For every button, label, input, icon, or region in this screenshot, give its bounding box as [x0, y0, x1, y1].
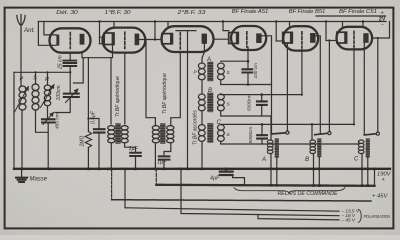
wire: relay C coil to bus and command bus: [361, 153, 363, 185]
wire: rail riser at x155: [154, 22, 156, 40]
wire: 1uF to bus: [135, 157, 137, 168]
transformer A primary winding: [198, 63, 205, 80]
node: misc junction dots: [34, 71, 36, 73]
wire: V3 screen lead to relay bus: [187, 52, 189, 168]
inductor R (reaction coil): [44, 85, 50, 106]
wire: V1 grid lead: [69, 53, 71, 60]
svg-text:1µF: 1µF: [129, 146, 139, 152]
node: rail tick T5-T6 filament link: [325, 22, 327, 41]
wire: relay A coil to bus and command bus: [270, 153, 272, 185]
wire: V6 filament uplink to rail: [342, 22, 344, 27]
relay C coil: [358, 140, 364, 154]
wire: coil R bottom to tuning capacitor: [47, 106, 49, 119]
transformer B secondary winding: [218, 94, 225, 111]
transformer B primary winding: [198, 94, 205, 111]
capacitor 5000cm (across C secondary): [261, 124, 263, 144]
tube V3 filament bar: [170, 34, 173, 43]
antenna symbol: [17, 15, 25, 39]
capacitor C 1uF (second): [159, 156, 170, 159]
adjustable arrow through coil P: [15, 87, 29, 113]
wire: battery riser from rail to C51 filament return: [372, 22, 390, 39]
relay C core bar: [366, 138, 370, 157]
svg-text:Tr.BF apériodique: Tr.BF apériodique: [162, 73, 168, 114]
relay A contact terminal: [286, 131, 289, 134]
wire: tuning cap to ground bus: [47, 123, 49, 168]
relay B contact terminal: [328, 132, 331, 135]
svg-text:Dét. 30: Dét. 30: [56, 10, 78, 16]
wire: V1 filament bottom lead from rail: [38, 22, 56, 46]
capacitor C 1uF (first): [130, 153, 141, 156]
wire: V2 plate drop to TR2 primary: [146, 40, 155, 126]
transformer TR1 (Tr.BF aperiodique) left winding: [108, 126, 115, 143]
wire: riser to +45V line: [111, 169, 113, 200]
wire: V2 plate out to V3 input: [139, 39, 161, 41]
tube V1 filament bar: [56, 35, 59, 46]
tube V6 filament bar: [344, 33, 347, 43]
wire: reaction hook: [74, 58, 84, 83]
capacitor 0.5uF: [94, 129, 105, 132]
transformer B core: [207, 93, 213, 113]
wire: V2 grid down to transformer1 secondary: [124, 53, 126, 124]
svg-text:RELAIS DE COMMANDE: RELAIS DE COMMANDE: [278, 191, 339, 197]
wire: C secondary bottom line to relay C coil: [221, 141, 359, 144]
wire: V3 plate out to V4 input: [214, 38, 229, 40]
svg-text:R: R: [45, 77, 49, 83]
svg-text:5000cm: 5000cm: [247, 94, 252, 111]
wire: V2 filament uplink to rail: [113, 22, 115, 28]
wire: V2 filament riser from rail: [99, 22, 101, 44]
wire: B-C primary link: [201, 111, 203, 125]
svg-text:0,5µF: 0,5µF: [91, 110, 97, 124]
tube V6 grid (dashed): [353, 31, 355, 46]
tube V3 filament box: [162, 34, 173, 44]
relay C contact terminal: [376, 132, 379, 135]
svg-text:C: C: [354, 157, 359, 163]
tube V3 anode plate: [202, 34, 207, 44]
tube V3 2.BF33 envelope: [162, 26, 214, 52]
wire: relay C contact feed from battery link: [377, 38, 379, 132]
tube V4 BF Finale A51 envelope: [231, 26, 266, 50]
wire: relay command bus (heavy dashed): [156, 185, 374, 186]
svg-text:100 cm: 100 cm: [253, 63, 258, 78]
wire: polarisation tap -18V: [181, 169, 339, 216]
svg-text:100cm: 100cm: [56, 85, 62, 100]
tube V4 anode plate: [256, 33, 261, 43]
relay A coil: [267, 140, 273, 154]
wire: V5 plate to relay B armature: [316, 36, 321, 134]
wire: V4 plate to relay A armature: [262, 36, 272, 134]
wire: TR1 right winding bottom to 1uF cap: [125, 143, 136, 152]
wire: C sec top to relay B coil: [311, 124, 313, 140]
capacitor 100cm (across A secondary): [247, 61, 249, 84]
transformer TR1 core: [115, 123, 120, 143]
transformer C primary winding: [198, 125, 205, 142]
tube V6 filament box: [337, 32, 347, 43]
svg-text:25 cm: 25 cm: [58, 55, 64, 70]
tube V3 screen grid rod and top strap: [176, 31, 196, 52]
transformer TR2 (Tr.BF aperiodique) left winding: [152, 126, 159, 143]
wire: +45V distribution line: [112, 200, 371, 201]
wire: coil S bottom to junction: [36, 110, 49, 132]
tube V4 filament bar: [236, 33, 239, 43]
wire: coil R top to grid line: [47, 72, 49, 85]
svg-text:POLARISATION: POLARISATION: [364, 214, 391, 219]
transformer C secondary winding: [218, 125, 225, 142]
variable capacitor 100cm (grid): [64, 94, 79, 97]
wire: antenna lead down to coil P: [21, 38, 23, 86]
svg-text:B: B: [208, 88, 212, 94]
tube V2 filament bar: [112, 34, 115, 44]
svg-text:C: C: [217, 120, 222, 126]
tube V5 filament bar: [290, 33, 293, 42]
brace: relais group: [234, 188, 345, 193]
relay B coil: [310, 140, 316, 154]
transformer C core: [207, 123, 213, 143]
wire: TR2 right winding bottom to 1uF cap2: [164, 143, 171, 156]
svg-text:−: −: [381, 22, 384, 28]
svg-text:Masse: Masse: [30, 176, 48, 183]
wire: 0.5uF branch from plate feed: [88, 119, 99, 129]
relay B core bar: [317, 138, 321, 157]
relay A core bar: [275, 138, 279, 157]
wire: V3 filament uplink to rail: [167, 22, 169, 27]
svg-text:BF Finale B51: BF Finale B51: [289, 9, 326, 15]
svg-text:BF Finale C51: BF Finale C51: [339, 9, 377, 15]
transformer A core: [207, 62, 213, 82]
wire: A secondary top to V4 grid: [221, 47, 248, 61]
svg-text:2°B.F. 33: 2°B.F. 33: [176, 10, 206, 16]
wire: 4uF bottom to relay bus riser: [233, 175, 245, 184]
wire: cathode return link at y58: [88, 45, 112, 58]
bracket: polarisation group: [358, 209, 361, 222]
wire: V5 filament uplink to rail: [289, 22, 291, 27]
tube V1 anode plate: [80, 34, 85, 45]
svg-text:BF Finale A51: BF Finale A51: [232, 9, 269, 15]
wire: V5 to V6 filament link: [326, 40, 337, 42]
tube V2 1.BF30 envelope: [103, 28, 146, 53]
wire: A secondary bottom line: [221, 80, 272, 85]
tube V1 grid (dashed): [69, 33, 71, 49]
wire: polarisation tap -13.5V: [125, 169, 339, 211]
relay A armature lever: [272, 133, 286, 134]
transformer TR2 core: [160, 123, 165, 143]
wire: +2V filament rail (plus side, right): [316, 15, 386, 17]
wire: main HT/ground bus 190V: [14, 168, 390, 170]
wire: +2V filament rail (top, minus side): [38, 21, 386, 23]
wire: V3 plate to tuned transformer chain: [202, 44, 204, 63]
tube V2 anode plate: [135, 34, 140, 46]
wire: relay B core to bus and command bus: [318, 157, 320, 185]
tube V2 grid (dashed): [124, 32, 126, 48]
wire: 0.5uF to ground bus: [98, 133, 100, 168]
node: C sec top junction: [261, 123, 264, 126]
wire: 1uF2 to bus: [163, 160, 165, 168]
wire: relay bus right riser to HT bus: [374, 169, 376, 186]
wire: relay B coil to bus and command bus: [313, 153, 315, 185]
node: A sec bottom junction: [247, 83, 250, 86]
wire: riser to relay command bus: [155, 169, 157, 185]
node: junction at battery link: [377, 37, 379, 39]
wire: coil P bottom to ground bus: [21, 110, 23, 168]
wire: V4 filament riser from rail: [223, 22, 229, 31]
tube V6 BF Finale C51 envelope: [337, 27, 373, 50]
tube V5 filament box: [283, 32, 293, 43]
tube V3 grid (dashed): [179, 33, 181, 50]
node: rail junction dots: [98, 20, 100, 22]
wire: V6 plate to relay C armature: [363, 43, 365, 134]
wire: C secondary top to V6 grid: [221, 46, 354, 124]
node: B sec top junction: [260, 93, 263, 96]
node: detector grid junction: [69, 71, 71, 73]
ground symbol (Masse): [16, 178, 27, 182]
tube V5 grid (dashed): [301, 32, 303, 47]
svg-text:5000cm: 5000cm: [248, 127, 253, 144]
svg-text:1µF: 1µF: [157, 159, 167, 165]
svg-text:S: S: [33, 76, 37, 82]
wire: relay B contact feed from V6 filament: [328, 41, 330, 132]
relay C armature lever: [364, 134, 376, 135]
tube V5 BF Finale B51 envelope: [283, 26, 318, 50]
wire: plate feed vertical to 2Mohm: [87, 58, 89, 132]
capacitor 5000cm (across B secondary): [261, 95, 263, 116]
wire: relay A core to bus and command bus: [276, 158, 278, 186]
wire: grid condenser to junction: [69, 67, 71, 93]
node: bus junction blobs: [21, 168, 24, 171]
svg-text:450 cm: 450 cm: [55, 113, 61, 129]
wire: V1 filament top lead from rail: [44, 22, 57, 35]
node: junction at V6 lead: [328, 39, 330, 41]
transformer A secondary winding: [218, 63, 225, 80]
svg-text:A: A: [261, 157, 266, 163]
relay B armature lever: [315, 133, 328, 134]
wire: TR2 left winding bottom to bus: [154, 143, 156, 168]
capacitor 4uF (HT decoupling): [225, 169, 227, 171]
transformer TR2 right winding: [167, 126, 174, 143]
wire: polarisation tap -45V: [258, 214, 339, 220]
node: junction at relay B feed: [311, 123, 314, 126]
wire: 100cm cap down to lower node: [55, 98, 70, 113]
tube V4 filament box: [229, 33, 239, 44]
svg-text:2MΩ: 2MΩ: [80, 136, 86, 148]
node: command bus junction blobs: [270, 184, 273, 187]
tube V1 Det.30 envelope: [50, 28, 91, 52]
tube V6 anode plate: [363, 33, 368, 43]
wire: C primary bottom to bus: [201, 141, 203, 168]
node: A sec top junction: [247, 60, 250, 63]
svg-text:4µF: 4µF: [210, 176, 220, 182]
wire: B secondary top to V5 grid: [221, 47, 302, 95]
svg-text:Tr.BF accordés: Tr.BF accordés: [193, 110, 199, 145]
wire: A-B primary link: [201, 80, 203, 94]
wire: relay C core to bus and command bus: [367, 157, 369, 185]
svg-text:P: P: [20, 77, 24, 83]
svg-text:Ant.: Ant.: [23, 27, 35, 34]
tube V4 grid (dashed): [246, 32, 248, 47]
wire: transformer1 primary top riser: [110, 58, 112, 124]
svg-text:1°B.F. 30: 1°B.F. 30: [105, 10, 132, 16]
wire: V4 to V5 filament link: [276, 40, 283, 42]
wire: V3 grid jog to TR2 secondary top: [171, 53, 181, 126]
svg-text:– 45 V: – 45 V: [341, 218, 356, 223]
node: rail tick above T6: [362, 22, 364, 28]
tube V2 filament box: [104, 33, 114, 45]
svg-text:B: B: [305, 157, 309, 163]
variable capacitor 450cm (tuning): [42, 119, 55, 122]
wire: TR1 left winding bottom to bus: [110, 143, 112, 168]
ground connection stem: [21, 169, 23, 177]
wire: coil S top to grid line: [14, 72, 70, 84]
wire: relay A contact feed from V5 filament: [286, 43, 288, 131]
resistor 2Mohm (zigzag): [85, 132, 91, 148]
wire: V2 plate to TR2, junction with rail riser: [154, 38, 156, 40]
wire: V2 filament leads: [100, 37, 105, 44]
svg-text:Tr.BF apériodique: Tr.BF apériodique: [115, 76, 121, 117]
adjustable arrow through coil R: [41, 85, 55, 108]
wire: 2Mohm to ground bus: [87, 148, 89, 169]
inductor P (antenna primary coil): [19, 86, 26, 110]
tube V5 anode plate: [310, 33, 315, 43]
inductor S (secondary tuned coil): [32, 84, 39, 110]
transformer TR1 right winding: [121, 126, 128, 143]
svg-text:+ 45V: + 45V: [372, 193, 388, 199]
svg-text:A: A: [206, 57, 211, 63]
wire: left return to bus: [13, 72, 15, 168]
wire: V1 plate lead down: [82, 53, 88, 58]
node: rail tick T4-T5 filament link: [275, 22, 277, 42]
capacitor 25cm (grid condenser): [64, 61, 77, 66]
wire: B secondary bottom line to relay A coil: [221, 111, 271, 140]
node: junction plate feed / 0.5uF branch: [87, 117, 89, 119]
